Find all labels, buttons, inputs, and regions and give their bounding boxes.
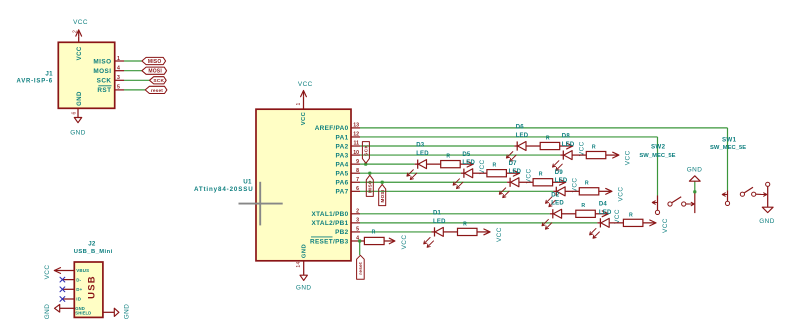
wire D1 to resistor (443, 231, 457, 233)
power symbol VCC after D1 (484, 227, 503, 242)
svg-text:XTAL1/PB0: XTAL1/PB0 (312, 211, 349, 218)
IC U1 ATtiny84-20SSU body (256, 109, 351, 261)
svg-text:R: R (546, 135, 550, 141)
svg-text:R: R (493, 163, 497, 169)
wire D6 to resistor (526, 145, 540, 147)
D4 value label LED (599, 210, 612, 216)
switch SW2 reference (651, 144, 666, 151)
J1 pin name MISO (93, 58, 111, 65)
resistor R for D3 (441, 154, 461, 168)
svg-text:D-: D- (76, 277, 81, 282)
svg-text:VCC: VCC (496, 227, 503, 242)
J2 GND pin stub (60, 307, 74, 309)
svg-text:PA2: PA2 (336, 143, 349, 150)
junction on PA4 wire (364, 163, 367, 166)
global label MISO (vertical) (366, 175, 373, 196)
svg-text:SCK: SCK (364, 145, 370, 156)
wire D5 to resistor (473, 172, 487, 174)
J1 pin name RST (97, 86, 111, 94)
U1 pin 7 number (356, 177, 359, 183)
U1 pin name PA1 (336, 134, 349, 141)
switch SW1 value SW_MEC_5E (710, 145, 746, 151)
wire resistor to VCC for D5 (506, 172, 519, 174)
svg-text:RST: RST (97, 87, 111, 94)
resistor R for D4 (623, 212, 643, 226)
U1 pin 8 stub (351, 172, 360, 174)
U1 pin 11 stub (351, 145, 360, 147)
svg-text:R: R (629, 212, 633, 218)
led D6 (506, 141, 526, 161)
svg-text:D6: D6 (516, 125, 525, 131)
U1 pin 13 number (353, 123, 359, 129)
J1 pin name SCK (97, 78, 112, 85)
svg-text:VCC: VCC (572, 178, 579, 193)
svg-text:GND: GND (687, 167, 703, 174)
svg-text:SW1: SW1 (722, 137, 737, 144)
svg-text:reset: reset (151, 88, 163, 93)
svg-text:6: 6 (71, 111, 77, 114)
svg-text:XTAL2/PB1: XTAL2/PB1 (312, 220, 349, 227)
svg-text:D2: D2 (551, 192, 560, 198)
U1 pin 4 stub (351, 240, 360, 242)
svg-text:MISO: MISO (93, 58, 111, 65)
svg-text:SCK: SCK (97, 78, 112, 85)
wire RESET to reset label (359, 241, 361, 255)
svg-text:R: R (539, 172, 543, 178)
power symbol VCC after D3 (467, 159, 486, 174)
svg-text:GND: GND (302, 244, 308, 258)
power symbol VCC after D7 (560, 178, 579, 193)
U1 reference label (243, 178, 252, 185)
svg-text:AREF/PA0: AREF/PA0 (315, 125, 349, 132)
led D7 (499, 178, 519, 198)
svg-text:D9: D9 (555, 170, 564, 176)
wire D8 to resistor (572, 154, 586, 156)
U1 pin 8 number (356, 168, 359, 174)
svg-text:PA3: PA3 (336, 152, 349, 159)
D4 reference label (599, 201, 608, 207)
svg-text:D3: D3 (416, 143, 425, 149)
resistor R for D5 (487, 163, 507, 177)
D5 reference label (462, 152, 471, 158)
J1 pin 4 number (117, 66, 120, 72)
ground symbol at J2 SHIELD (114, 304, 130, 320)
J1 pin 5 stub (115, 89, 124, 91)
J2 D- pin stub (62, 279, 74, 281)
svg-text:GND: GND (296, 285, 312, 292)
J2 value label USB_B_Mini (74, 249, 113, 255)
D2 reference label (551, 192, 560, 198)
wire J1 to label SCK (124, 79, 150, 81)
svg-text:LED: LED (462, 160, 475, 166)
power symbol VCC after D2 (602, 209, 621, 224)
U1 pin 9 number (356, 159, 359, 165)
global label SCK (vertical) (362, 142, 369, 164)
switch SW2 pin line (657, 196, 659, 211)
svg-text:LED: LED (509, 169, 522, 175)
power symbol VCC after RESET resistor (389, 235, 408, 250)
D9 reference label (555, 170, 564, 176)
svg-text:MOSI: MOSI (93, 68, 111, 75)
svg-text:ID: ID (76, 297, 81, 302)
global label MOSI (vertical) (379, 184, 386, 205)
led D5 (453, 169, 473, 189)
J2 reference label (88, 241, 96, 248)
svg-text:LED: LED (551, 201, 564, 207)
wire PA2 to D6 (360, 145, 514, 147)
U1 value label ATtiny84-20SSU (194, 186, 254, 193)
J2 ID pin stub (62, 298, 74, 300)
svg-text:1: 1 (296, 102, 302, 105)
svg-text:J2: J2 (88, 241, 96, 248)
svg-text:ATtiny84-20SSU: ATtiny84-20SSU (194, 186, 254, 193)
D8 value label LED (562, 142, 575, 148)
wire PA0 to SW1 (360, 128, 728, 191)
wire D2 to resistor (562, 213, 576, 215)
wire D7 to resistor (519, 181, 533, 183)
svg-text:14: 14 (296, 261, 302, 267)
power symbol VCC after D8 (613, 150, 632, 165)
U1 pin 5 number (356, 227, 359, 233)
svg-text:GND: GND (759, 218, 775, 225)
svg-text:R: R (372, 230, 376, 236)
U1 pin name PA2 (336, 143, 349, 150)
U1 VCC pin name (vertical) (301, 111, 307, 125)
svg-text:VCC: VCC (614, 209, 621, 224)
svg-text:D4: D4 (599, 201, 608, 207)
U1 pin 3 stub (351, 222, 360, 224)
switch SW2 actuator arrow left (652, 201, 657, 204)
svg-text:MISO: MISO (368, 180, 373, 193)
switch SW2 pole circles and lever (668, 197, 686, 206)
wire resistor to VCC for D1 (477, 231, 490, 233)
svg-text:GND: GND (77, 91, 83, 106)
U1 pin 2 number (356, 209, 359, 215)
svg-text:PB2: PB2 (335, 229, 349, 236)
svg-text:D7: D7 (509, 161, 518, 167)
svg-text:VCC: VCC (625, 150, 632, 165)
ground symbol at U1 (296, 275, 312, 291)
U1 pin 3 number (356, 218, 359, 224)
J1 pin 4 stub (115, 70, 124, 72)
global label reset (145, 86, 167, 93)
U1 pin 10 stub (351, 154, 360, 156)
U1 GND pin name (vertical) (302, 244, 308, 258)
power symbol VCC at J2 VBUS (44, 265, 62, 280)
resistor R for D7 (533, 172, 553, 186)
resistor R for D9 (579, 181, 599, 195)
wire XTAL1/PB0 to D2 (360, 213, 550, 215)
J1 pin 6 (GND) line (71, 108, 78, 117)
D3 reference label (416, 143, 425, 149)
J1 reference label (45, 71, 53, 78)
wire J1 to label MOSI (124, 70, 142, 72)
svg-text:D5: D5 (462, 152, 471, 158)
svg-text:U1: U1 (243, 178, 252, 185)
switch SW2 contact circle 1 (655, 210, 659, 214)
resistor R for D8 (586, 144, 606, 158)
svg-text:GND: GND (70, 130, 86, 137)
switch SW2 actuator arrow right (686, 202, 694, 205)
no-connect X on D+ (60, 287, 65, 292)
junction on SW2 frame (693, 190, 696, 193)
switch SW1 actuator arrow right (756, 193, 767, 196)
svg-text:USB: USB (85, 275, 96, 299)
J1 pin 1 number (117, 56, 120, 62)
svg-text:VCC: VCC (73, 19, 88, 26)
junction on PA5 wire (368, 172, 371, 175)
svg-text:PA4: PA4 (336, 161, 349, 168)
wire resistor to VCC for D6 (560, 145, 573, 147)
junction on RESET wire (358, 239, 361, 242)
U1 pin 9 stub (351, 163, 360, 165)
wire PA6 to D7 (360, 181, 507, 183)
svg-text:PA5: PA5 (336, 171, 349, 178)
resistor R for D1 (458, 221, 478, 235)
svg-text:D1: D1 (433, 211, 442, 217)
D2 value label LED (551, 201, 564, 207)
J2 pin name VBUS (76, 268, 89, 273)
wire PA1 to SW2 (360, 137, 658, 196)
svg-text:GND: GND (44, 304, 51, 320)
svg-text:R: R (446, 154, 450, 160)
D6 value label LED (516, 133, 529, 139)
J2 USB text (vertical) (85, 275, 96, 299)
led D3 (407, 160, 427, 180)
svg-text:LED: LED (433, 219, 446, 225)
svg-text:reset: reset (358, 262, 363, 275)
resistor R for D6 (540, 135, 560, 149)
U1 pin 12 stub (351, 136, 360, 138)
wire PB2 to D1 (360, 231, 432, 233)
wire J1 to label reset (124, 89, 145, 91)
svg-text:VBUS: VBUS (76, 268, 89, 273)
J1 GND pin name (vertical) (77, 91, 83, 106)
U1 pin name PA7 (336, 189, 349, 196)
svg-text:MISO: MISO (148, 59, 162, 65)
wire PA4 to D3 (360, 163, 415, 165)
svg-text:VCC: VCC (579, 141, 586, 156)
U1 pin 14 (GND) line (296, 261, 304, 275)
J1 pin 3 stub (115, 79, 124, 81)
J2 pin name D- (76, 277, 81, 282)
svg-text:SCK: SCK (153, 78, 164, 84)
wire resistor to VCC for D9 (599, 190, 612, 192)
U1 pin name RESET/PB3 (310, 237, 349, 245)
led D8 (553, 150, 573, 170)
svg-text:VCC: VCC (479, 159, 486, 174)
svg-text:VCC: VCC (298, 81, 313, 88)
U1 pin name AREF/PA0 (315, 125, 349, 132)
switch SW1 reference (722, 137, 737, 144)
wire resistor to VCC on RESET (384, 240, 394, 242)
svg-text:USB_B_Mini: USB_B_Mini (74, 249, 113, 255)
no-connect X on D- (60, 277, 65, 282)
svg-text:R: R (463, 221, 467, 227)
J2 pin name D+ (76, 287, 82, 292)
J1 pin 1 stub (115, 60, 124, 62)
D3 value label LED (416, 151, 429, 157)
global label reset (vertical) (357, 255, 365, 279)
D1 reference label (433, 211, 442, 217)
wire resistor to VCC for D8 (606, 154, 619, 156)
svg-text:LED: LED (599, 210, 612, 216)
svg-text:R: R (585, 181, 589, 187)
J1 pin 5 number (117, 85, 120, 91)
wire RESET/PB3 to resistor (360, 240, 364, 242)
U1 pin 4 number (356, 236, 359, 242)
ground symbol below SW1 (759, 207, 775, 225)
J2 pin name GND (75, 306, 85, 311)
J1 value label AVR-ISP-6 (17, 78, 53, 84)
svg-text:LED: LED (516, 133, 529, 139)
svg-text:PA7: PA7 (336, 189, 349, 196)
connector J2 USB_B_Mini body (74, 262, 103, 317)
led D4 (590, 218, 610, 238)
svg-text:VCC: VCC (618, 187, 625, 202)
svg-text:LED: LED (562, 142, 575, 148)
led D1 (424, 227, 444, 247)
resistor R on RESET line (364, 230, 384, 245)
svg-text:R: R (592, 144, 596, 150)
svg-text:J1: J1 (45, 71, 53, 78)
U1 pin 6 number (356, 186, 359, 192)
U1 pin 1 (VCC) line (296, 97, 304, 109)
power symbol VCC at J1 (73, 19, 88, 36)
D5 value label LED (462, 160, 475, 166)
svg-text:VCC: VCC (401, 235, 408, 250)
J1 pin 3 number (117, 75, 120, 81)
svg-text:SW2: SW2 (651, 144, 666, 151)
svg-text:PA1: PA1 (336, 134, 349, 141)
D8 reference label (562, 134, 571, 140)
wire PA3 to D8 (360, 154, 560, 156)
ground symbol at J1 (70, 118, 86, 137)
svg-text:LED: LED (555, 178, 568, 184)
switch SW2 frame line (694, 181, 696, 213)
no-connect X on ID (60, 297, 65, 302)
wire J1 to label MISO (124, 60, 142, 62)
global label MOSI (142, 67, 167, 75)
switch SW1 frame line (767, 187, 769, 208)
svg-text:VCC: VCC (662, 218, 669, 233)
power symbol VCC after D4 (650, 218, 669, 233)
U1 pin name PA5 (336, 171, 349, 178)
U1 pin 5 stub (351, 231, 360, 233)
J1 pin name MOSI (93, 68, 111, 75)
J2 SHIELD pin line (103, 311, 115, 313)
J2 pin name ID (76, 297, 81, 302)
wire XTAL2/PB1 to D4 (360, 222, 597, 224)
ground symbol at J2 left (44, 304, 60, 320)
U1 pin name PA6 (336, 180, 349, 187)
U1 pin 13 stub (351, 127, 360, 129)
switch SW1 pin line (727, 191, 729, 202)
U1 pin name XTAL1/PB0 (312, 211, 349, 218)
J1 pin 2 (VCC) line (73, 30, 79, 42)
power symbol VCC after D5 (513, 168, 532, 183)
svg-text:D+: D+ (76, 287, 82, 292)
svg-text:MOSI: MOSI (148, 69, 162, 75)
svg-text:LED: LED (416, 151, 429, 157)
J2 pin name SHIELD (75, 310, 91, 315)
wire PA5 to D5 (360, 172, 461, 174)
switch SW1 actuator arrow left (722, 193, 727, 196)
wire resistor to VCC for D2 (595, 213, 608, 215)
switch SW1 top contact circle (766, 182, 770, 186)
svg-text:GND: GND (124, 304, 131, 320)
U1 pin name PA3 (336, 152, 349, 159)
svg-text:PA6: PA6 (336, 180, 349, 187)
switch SW1 pole circles and lever (740, 187, 756, 196)
power symbol VCC after D6 (567, 141, 586, 156)
wire resistor to VCC for D4 (643, 222, 656, 224)
wire D3 to resistor (427, 163, 441, 165)
U1 pin 7 stub (351, 181, 360, 183)
ground symbol above SW2 (inverted) (687, 167, 703, 182)
wire resistor to VCC for D3 (460, 163, 473, 165)
D6 reference label (516, 125, 525, 131)
power symbol VCC at U1 (298, 81, 313, 97)
U1 pin 12 number (353, 132, 359, 138)
svg-text:VCC: VCC (44, 265, 51, 280)
wire PA7 to D9 (360, 190, 553, 192)
wire D9 to resistor (565, 190, 579, 192)
connector J1 AVR-ISP-6 body (58, 42, 114, 108)
U1 pin name XTAL2/PB1 (312, 220, 349, 227)
switch SW1 contact circle 1 (725, 201, 729, 205)
svg-text:VCC: VCC (77, 46, 83, 60)
D7 value label LED (509, 169, 522, 175)
svg-text:VCC: VCC (525, 168, 532, 183)
wire resistor to VCC for D7 (553, 181, 566, 183)
U1 pin 11 number (354, 141, 360, 147)
wire D4 to resistor (609, 222, 623, 224)
U1 pin 6 stub (351, 190, 360, 192)
svg-text:SW_MEC_5E: SW_MEC_5E (639, 153, 675, 159)
cursor crosshair (239, 182, 283, 226)
svg-text:SW_MEC_5E: SW_MEC_5E (710, 145, 746, 151)
D7 reference label (509, 161, 518, 167)
svg-text:RESET/PB3: RESET/PB3 (310, 238, 349, 245)
svg-text:VCC: VCC (301, 111, 307, 125)
J2 D+ pin stub (62, 288, 74, 290)
svg-text:AVR-ISP-6: AVR-ISP-6 (17, 78, 53, 84)
svg-text:R: R (581, 203, 585, 209)
svg-text:D8: D8 (562, 134, 571, 140)
switch SW2 value SW_MEC_5E (639, 153, 675, 159)
svg-text:SHIELD: SHIELD (75, 310, 91, 315)
led D9 (546, 187, 566, 207)
junction on PA6 wire (381, 181, 384, 184)
J2 VBUS pin stub (62, 270, 74, 272)
power symbol VCC after D9 (606, 187, 625, 202)
resistor R for D2 (576, 203, 596, 217)
D9 value label LED (555, 178, 568, 184)
D1 value label LED (433, 219, 446, 225)
U1 pin name PB2 (335, 229, 349, 236)
global label MISO (142, 57, 166, 65)
svg-text:MOSI: MOSI (380, 190, 385, 203)
U1 pin 2 stub (351, 213, 360, 215)
J1 VCC pin name (vertical) (77, 46, 83, 60)
led D2 (542, 209, 562, 229)
global label SCK (150, 77, 167, 85)
U1 pin name PA4 (336, 161, 349, 168)
U1 pin 10 number (353, 150, 359, 156)
